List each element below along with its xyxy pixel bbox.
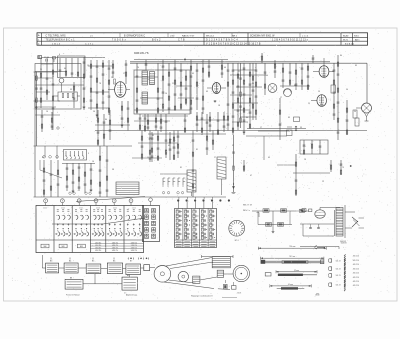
- svg-text:8: 8: [45, 201, 46, 203]
- svg-text:B7-1: B7-1: [235, 240, 239, 242]
- svg-text:D 1 2 3 4 5 6 7 B N 9 C 4: D 1 2 3 4 5 6 7 B N 9 C 4: [206, 39, 238, 41]
- svg-text:22: 22: [111, 77, 113, 79]
- svg-text:8: 8: [114, 201, 115, 203]
- svg-text:81: 81: [180, 167, 182, 169]
- svg-text:18: 18: [218, 105, 220, 107]
- svg-text:60: 60: [64, 68, 66, 70]
- svg-text:RADIO TST: RADIO TST: [182, 34, 195, 37]
- svg-text:15: 15: [147, 157, 149, 159]
- svg-text:16: 16: [92, 161, 94, 163]
- svg-text:16: 16: [46, 111, 48, 113]
- svg-text:750 mm: 750 mm: [289, 246, 296, 248]
- svg-text:8: 8: [131, 201, 132, 203]
- svg-text:8: 8: [62, 201, 63, 203]
- svg-text:TELEFUNKEN A B C x 1: TELEFUNKEN A B C x 1: [46, 38, 76, 41]
- svg-text:4 61 8: 4 61 8: [237, 293, 242, 295]
- svg-text:28: 28: [304, 159, 306, 161]
- svg-text:60: 60: [57, 174, 59, 176]
- svg-text:501 23: 501 23: [336, 275, 341, 277]
- svg-text:56: 56: [93, 111, 95, 113]
- svg-text:83: 83: [152, 135, 154, 137]
- svg-text:W 25: W 25: [343, 39, 349, 41]
- svg-text:17: 17: [260, 127, 262, 129]
- svg-text:64: 64: [266, 75, 268, 77]
- svg-text:52 mm: 52 mm: [294, 270, 300, 272]
- svg-text:33: 33: [300, 127, 302, 129]
- svg-text:90: 90: [346, 89, 348, 91]
- svg-text:25: 25: [322, 181, 324, 183]
- svg-text:9: 9: [88, 153, 89, 155]
- svg-text:38: 38: [112, 169, 114, 171]
- svg-text:80: 80: [252, 83, 254, 85]
- svg-text:8: 8: [79, 201, 80, 203]
- svg-text:49: 49: [168, 145, 170, 147]
- svg-text:51: 51: [40, 69, 42, 71]
- svg-text:9061W-76: 9061W-76: [134, 51, 149, 55]
- svg-text:1 11 1: 1 11 1: [79, 207, 83, 209]
- svg-text:21: 21: [238, 71, 240, 73]
- svg-text:C 7 B: C 7 B: [178, 39, 185, 41]
- svg-text:465 210: 465 210: [353, 264, 359, 266]
- svg-text:37: 37: [148, 79, 150, 81]
- svg-text:465 210: 465 210: [353, 268, 359, 270]
- svg-text:x 1 x 4: x 1 x 4: [302, 35, 309, 37]
- svg-text:8: 8: [96, 201, 97, 203]
- svg-text:84: 84: [105, 119, 107, 121]
- svg-text:B4: B4: [69, 261, 71, 263]
- svg-text:65: 65: [192, 73, 194, 75]
- svg-text:465 210: 465 210: [353, 260, 359, 262]
- svg-text:501 23: 501 23: [336, 268, 341, 270]
- svg-text:NR 2: NR 2: [232, 35, 238, 37]
- svg-text:WK x 1 x: WK x 1 x: [243, 210, 250, 212]
- svg-text:Printed in Holland: Printed in Holland: [66, 293, 79, 296]
- svg-text:63: 63: [268, 157, 270, 159]
- svg-text:1 11 1: 1 11 1: [132, 207, 136, 209]
- svg-text:SCHEMA NR 9061 W: SCHEMA NR 9061 W: [250, 34, 275, 37]
- svg-text:B8: B8: [70, 277, 72, 279]
- svg-text:17: 17: [280, 97, 282, 99]
- svg-text:1453 714: 1453 714: [131, 250, 137, 252]
- svg-text:465 210: 465 210: [353, 285, 359, 287]
- svg-text:V 1 2 B 4 5 6 7 8 9 10 C 12 13: V 1 2 B 4 5 6 7 8 9 10 C 12 13 14 15 16 …: [206, 44, 261, 46]
- svg-text:1 B x 4: 1 B x 4: [52, 44, 61, 46]
- svg-text:27: 27: [214, 157, 216, 159]
- svg-text:B6: B6: [113, 261, 115, 263]
- svg-text:MW: MW: [44, 246, 47, 248]
- svg-text:74: 74: [137, 67, 139, 69]
- svg-text:B3: B3: [50, 261, 52, 263]
- svg-text:84: 84: [340, 55, 342, 57]
- svg-text:93: 93: [70, 89, 72, 91]
- svg-text:501 23: 501 23: [336, 284, 341, 286]
- svg-text:5082 B: 5082 B: [341, 243, 347, 245]
- svg-text:38: 38: [332, 71, 334, 73]
- svg-text:90: 90: [354, 111, 356, 113]
- svg-text:47: 47: [250, 175, 252, 177]
- svg-text:1 11 1: 1 11 1: [61, 207, 65, 209]
- svg-text:97: 97: [232, 145, 234, 147]
- svg-text:63: 63: [206, 91, 208, 93]
- svg-text:BLAD: BLAD: [343, 34, 349, 37]
- svg-text:84: 84: [42, 157, 44, 159]
- svg-text:83: 83: [288, 117, 290, 119]
- svg-text:1 11 1: 1 11 1: [113, 207, 117, 209]
- svg-text:21: 21: [172, 83, 174, 85]
- svg-text:B 6 x 2: B 6 x 2: [152, 39, 161, 41]
- svg-text:1 11 1: 1 11 1: [43, 207, 47, 209]
- svg-text:B 2 B 1 A: B 2 B 1 A: [345, 43, 354, 46]
- svg-text:78: 78: [99, 83, 101, 85]
- svg-text:82: 82: [294, 85, 296, 87]
- svg-text:501 23: 501 23: [336, 260, 341, 262]
- svg-text:B GRAMOFOON C: B GRAMOFOON C: [124, 34, 145, 37]
- svg-text:10-54: 10-54: [315, 294, 319, 296]
- svg-text:83: 83: [355, 65, 357, 67]
- svg-text:465 210: 465 210: [353, 277, 359, 279]
- svg-text:1453 714: 1453 714: [112, 250, 118, 252]
- svg-text:WK x14: WK x14: [206, 35, 214, 37]
- svg-text:x BD: x BD: [170, 35, 175, 37]
- svg-text:WK 2 T 19: WK 2 T 19: [243, 205, 252, 207]
- svg-text:84: 84: [246, 117, 248, 119]
- svg-text:1 11 1: 1 11 1: [96, 207, 100, 209]
- svg-text:81: 81: [196, 149, 198, 151]
- svg-text:465 210: 465 210: [353, 273, 359, 275]
- svg-text:14: 14: [165, 93, 167, 95]
- svg-text:23: 23: [318, 91, 320, 93]
- svg-text:40: 40: [224, 67, 226, 69]
- svg-text:79: 79: [342, 167, 344, 169]
- svg-text:C 1 T x: C 1 T x: [85, 44, 94, 46]
- svg-text:465 210: 465 210: [353, 281, 359, 283]
- svg-text:1 2 B 4 5 6 7 8 9 10 11 12 13: 1 2 B 4 5 6 7 8 9 10 11 12 13 x: [272, 39, 309, 41]
- svg-text:MW: MW: [80, 246, 83, 248]
- svg-text:Afgebeeld app.: Afgebeeld app.: [126, 293, 138, 296]
- svg-text:C TELTIPEL NRS: C TELTIPEL NRS: [46, 35, 66, 37]
- svg-text:74.5 cm: 74.5 cm: [289, 256, 296, 258]
- svg-text:Wijzigingen voorbehouden B: Wijzigingen voorbehouden B: [191, 294, 213, 297]
- svg-text:17: 17: [123, 73, 125, 75]
- svg-text:B7: B7: [130, 261, 132, 263]
- svg-text:MW: MW: [62, 246, 65, 248]
- svg-text:B5: B5: [92, 261, 94, 263]
- svg-text:6: 6: [59, 54, 60, 56]
- svg-text:465 210: 465 210: [353, 256, 359, 258]
- svg-text:1453 714: 1453 714: [95, 250, 101, 252]
- svg-text:B9: B9: [127, 275, 129, 277]
- svg-text:29: 29: [52, 76, 54, 78]
